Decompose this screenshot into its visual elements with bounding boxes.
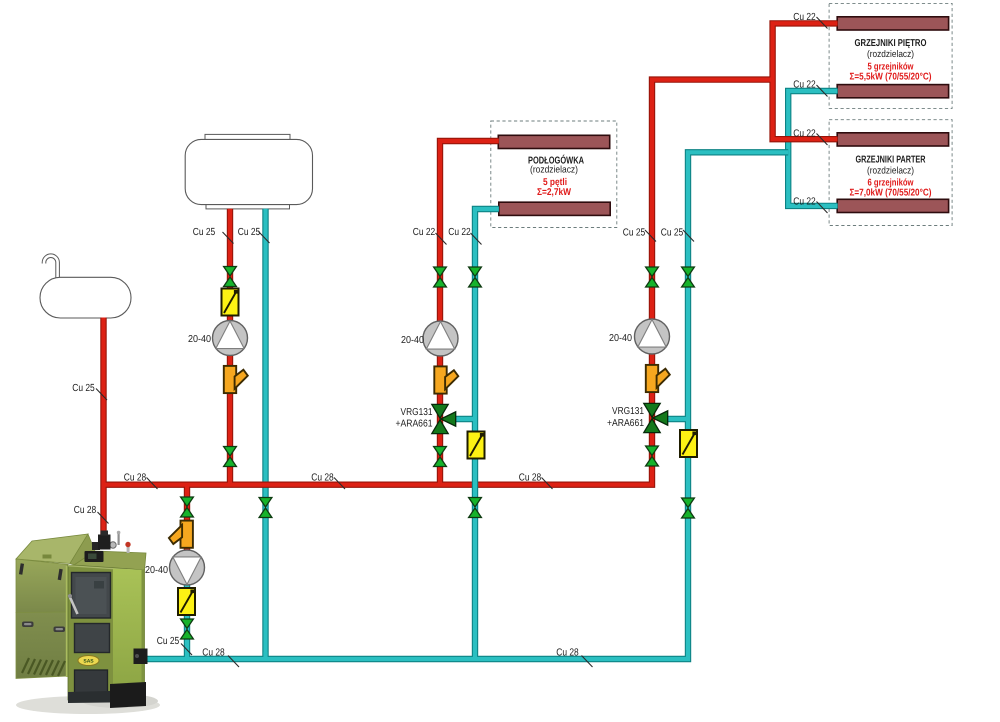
boiler door handle <box>69 595 78 614</box>
wire red radiator risers <box>773 23 838 139</box>
valve V8 radiators lower <box>646 446 659 466</box>
manifold box PODLOGOWKA <box>491 121 617 228</box>
svg-text:Cu 25: Cu 25 <box>193 227 216 238</box>
wire red expansion-tank to boiler <box>100 318 106 537</box>
svg-text:Σ=5,5kW (70/55/20°C): Σ=5,5kW (70/55/20°C) <box>850 72 932 83</box>
svg-text:Cu 28: Cu 28 <box>311 473 334 484</box>
boiler shadow <box>16 696 160 714</box>
svg-text:(rozdzielacz): (rozdzielacz) <box>530 165 578 176</box>
open expansion tank <box>40 277 131 318</box>
valve V12 boiler supply <box>181 497 194 517</box>
svg-text:Cu 25: Cu 25 <box>661 227 684 238</box>
svg-text:+ARA661: +ARA661 <box>607 418 644 429</box>
svg-text:Cu 22: Cu 22 <box>413 227 436 238</box>
check valve A2 floor <box>434 366 458 393</box>
pump P4 20-40 boiler <box>170 550 205 585</box>
boiler safety valve <box>127 546 130 553</box>
boiler corner highlight <box>66 566 68 677</box>
filter F3 radiators return <box>680 430 697 457</box>
boiler return fitting (teal pipe entry) <box>134 649 148 665</box>
svg-text:(rozdzielacz): (rozdzielacz) <box>867 165 914 176</box>
svg-text:Cu 22: Cu 22 <box>448 227 471 238</box>
pump P1 20-40 buffer <box>213 321 248 356</box>
PIPES <box>104 23 838 660</box>
boiler upper door <box>72 573 111 619</box>
buffer tank body <box>185 139 312 204</box>
BOILER-PHOTO <box>16 531 160 714</box>
boiler pedestal right <box>110 682 146 708</box>
valve V2 floor supply <box>434 267 447 287</box>
valve V7 floor lower <box>434 447 447 467</box>
manifold box GRZEJNIKI PIETRO <box>829 3 952 108</box>
valve V11 radiators return lower <box>682 498 695 518</box>
wire teal mixing branch right <box>667 416 688 422</box>
valve V10 floor return lower <box>469 498 482 518</box>
boiler control deck <box>74 551 146 570</box>
manifold bar PODLOGOWKA return <box>499 202 610 215</box>
svg-text:20-40: 20-40 <box>188 334 211 345</box>
boiler flue fitting (red pipe entry) <box>98 535 111 550</box>
svg-text:VRG131: VRG131 <box>612 406 644 417</box>
boiler chimney stub <box>92 542 100 550</box>
wire red boiler column <box>184 485 190 567</box>
svg-text:20-40: 20-40 <box>401 335 424 346</box>
valve V9 buffer return <box>259 498 272 518</box>
boiler bottom strip <box>68 690 146 703</box>
svg-text:Cu 25: Cu 25 <box>623 227 646 238</box>
check valve A3 radiators <box>646 365 670 392</box>
mixing valve VRG131 U2 <box>644 403 668 432</box>
svg-text:GRZEJNIKI PARTER: GRZEJNIKI PARTER <box>856 155 927 166</box>
valve V13 boiler return <box>181 619 194 639</box>
buffer tank top flange <box>205 134 290 139</box>
valve V4 radiators supply <box>646 267 659 287</box>
svg-text:GRZEJNIKI PIĘTRO: GRZEJNIKI PIĘTRO <box>855 38 927 49</box>
wire red floor-heating drop <box>440 141 499 485</box>
svg-text:Cu 22: Cu 22 <box>793 80 816 91</box>
BOXES <box>491 3 952 227</box>
svg-text:Σ=7,0kW (70/55/20°C): Σ=7,0kW (70/55/20°C) <box>850 188 932 199</box>
pump P3 20-40 radiators <box>635 319 670 354</box>
svg-text:Cu 22: Cu 22 <box>793 128 816 139</box>
manifold bar PODLOGOWKA supply <box>498 135 609 148</box>
svg-text:Cu 25: Cu 25 <box>157 636 180 647</box>
svg-text:Cu 25: Cu 25 <box>72 383 95 394</box>
filter F2 floor return <box>468 432 485 459</box>
boiler controller <box>85 551 104 562</box>
svg-text:(rozdzielacz): (rozdzielacz) <box>867 49 914 60</box>
valve V5 radiators return upper <box>682 267 695 287</box>
valve V6 buffer lower <box>224 447 237 467</box>
wire teal return buffer-tank (under red main) <box>262 209 268 659</box>
buffer tank bottom flange <box>206 204 290 209</box>
svg-text:VRG131: VRG131 <box>401 407 433 418</box>
pump P2 20-40 floor <box>423 321 458 356</box>
svg-text:Cu 22: Cu 22 <box>793 12 816 23</box>
valve V1 buffer supply <box>224 267 237 287</box>
boiler lower door <box>75 670 108 694</box>
svg-text:Cu 22: Cu 22 <box>793 197 816 208</box>
wire teal return upstairs manifold loop <box>788 91 837 206</box>
boiler right shade strip <box>113 569 145 700</box>
valve V3 floor return upper <box>469 267 482 287</box>
manifold bar PARTER supply <box>837 133 948 146</box>
mixing valve VRG131 U1 <box>432 404 456 433</box>
svg-text:Cu 28: Cu 28 <box>74 505 97 516</box>
boiler left side panel lower <box>16 612 68 679</box>
TANKS <box>40 134 313 318</box>
svg-text:SAS: SAS <box>83 659 94 665</box>
boiler lid step face <box>70 534 95 565</box>
svg-text:Cu 28: Cu 28 <box>124 473 147 484</box>
boiler front face <box>68 565 145 700</box>
filter F4 boiler return <box>178 588 195 615</box>
junction patch buffer return tee <box>263 652 267 660</box>
manifold bar PARTER return <box>837 199 948 212</box>
manifold box GRZEJNIKI PARTER <box>829 120 952 226</box>
boiler top lid <box>16 534 88 564</box>
wire teal mixing branch middle <box>455 416 475 422</box>
boiler logo SAS <box>78 656 99 666</box>
manifold bar PIETRO return <box>837 85 948 98</box>
boiler left side panel upper <box>16 559 68 613</box>
svg-text:Cu 28: Cu 28 <box>556 648 579 659</box>
wire teal bottom return main <box>137 152 788 659</box>
wire teal floor-heating return <box>475 209 499 659</box>
boiler vent slats <box>22 658 65 676</box>
svg-text:Σ=2,7kW: Σ=2,7kW <box>537 187 572 198</box>
OVERLAY fittings on boiler <box>98 531 148 665</box>
wire red buffer-tank supply drop <box>227 209 233 485</box>
manifold bar PIETRO supply <box>837 17 948 30</box>
boiler side handles <box>22 622 34 628</box>
open expansion tank overflow hook <box>44 256 58 278</box>
svg-text:Cu 25: Cu 25 <box>238 227 261 238</box>
svg-text:20-40: 20-40 <box>145 565 168 576</box>
boiler middle door <box>75 624 110 653</box>
check valve A4 boiler <box>169 521 193 548</box>
check valve A1 buffer <box>224 366 248 393</box>
wire red main supply with riser to radiators <box>104 80 773 485</box>
svg-text:+ARA661: +ARA661 <box>396 419 433 430</box>
svg-text:Cu 28: Cu 28 <box>202 648 225 659</box>
svg-text:Cu 28: Cu 28 <box>519 473 542 484</box>
wire teal boiler return column <box>184 567 190 659</box>
filter F1 buffer supply <box>222 289 239 316</box>
boiler thermometer <box>110 542 116 548</box>
boiler lid latches <box>19 563 24 574</box>
svg-text:20-40: 20-40 <box>609 333 632 344</box>
